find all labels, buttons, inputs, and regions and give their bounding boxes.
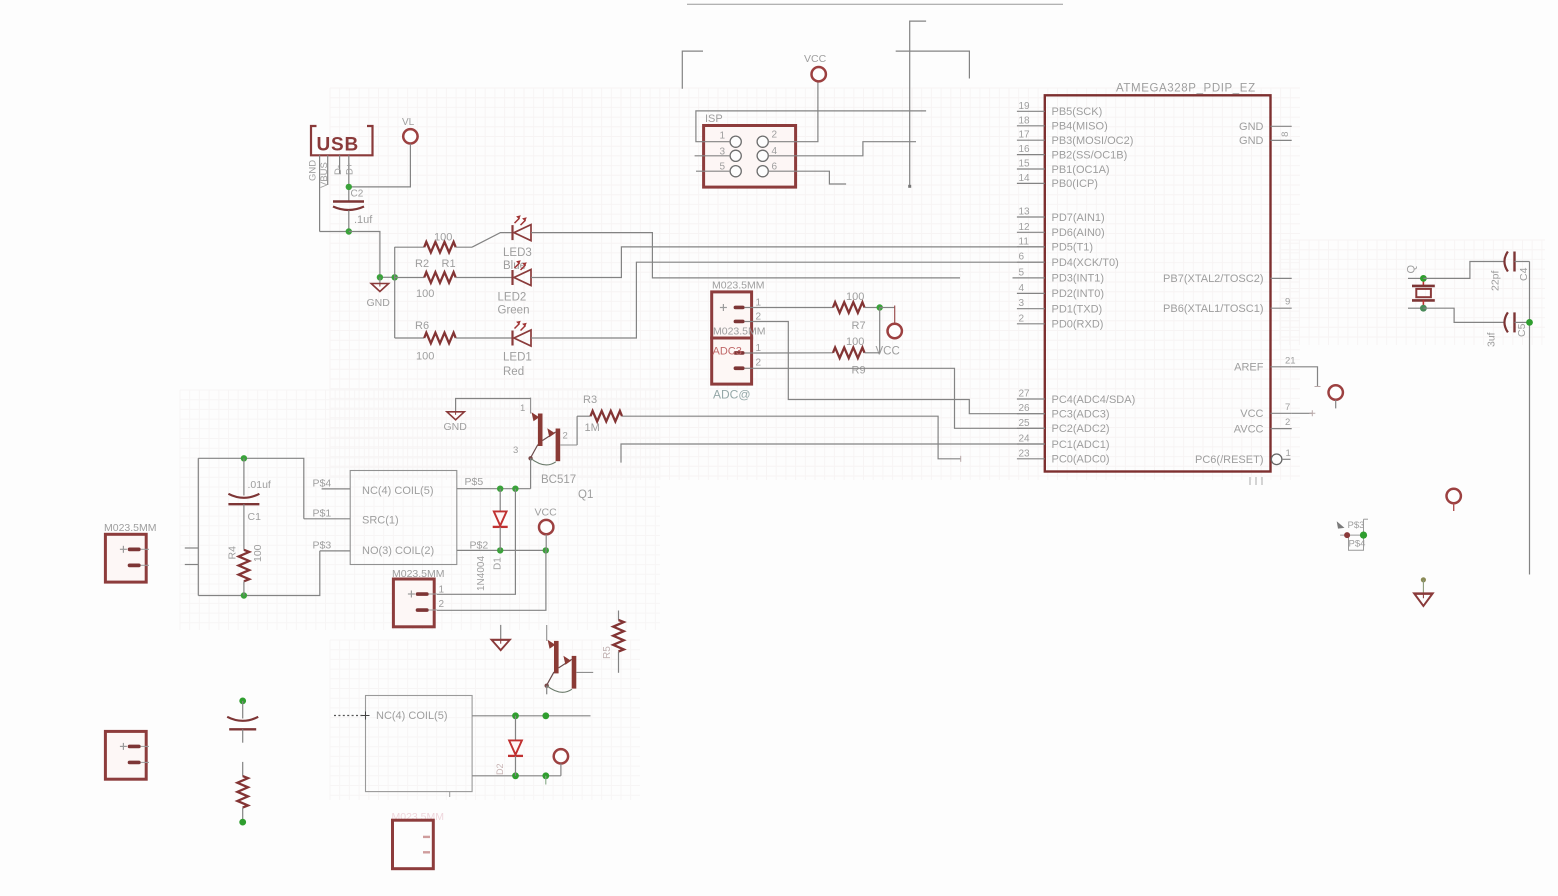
svg-text:Green: Green xyxy=(498,305,530,317)
wire blk pin2 to VCC node xyxy=(437,550,546,610)
junction C2 bottom xyxy=(346,228,352,234)
resistor R8 unlabeled xyxy=(237,762,248,822)
relay K2 box xyxy=(366,696,473,798)
svg-text:R5: R5 xyxy=(602,646,613,659)
svg-text:GND: GND xyxy=(1239,121,1264,133)
junction relay2 a xyxy=(512,712,519,719)
resistor R5 xyxy=(602,611,624,673)
svg-text:Red: Red xyxy=(503,366,524,378)
svg-text:PB7(XTAL2/TOSC2): PB7(XTAL2/TOSC2) xyxy=(1163,273,1263,285)
connector ISP xyxy=(704,113,796,187)
svg-text:NC(4) COIL(5): NC(4) COIL(5) xyxy=(376,710,448,722)
pin D+ of USB xyxy=(344,155,355,187)
svg-text:PB5(SCK): PB5(SCK) xyxy=(1052,106,1103,118)
wire dotted pin relay2 xyxy=(334,712,370,720)
svg-text:SRC(1): SRC(1) xyxy=(362,515,399,527)
pin 4 PD2(INT0) xyxy=(1017,283,1104,300)
junction P$5 a xyxy=(497,486,503,492)
svg-text:2: 2 xyxy=(1019,313,1025,324)
svg-text:2: 2 xyxy=(772,130,778,141)
svg-text:1: 1 xyxy=(720,131,726,142)
wire PC1 pin24 net xyxy=(621,444,1045,463)
svg-text:PB2(SS/OC1B): PB2(SS/OC1B) xyxy=(1052,149,1128,161)
wire USB GND to C2 bottom xyxy=(320,231,349,233)
wire R node vertical xyxy=(394,247,396,338)
svg-text:8: 8 xyxy=(1280,132,1291,137)
svg-text:C5: C5 xyxy=(1516,323,1528,337)
resistor R7 xyxy=(833,291,880,332)
svg-text:R6: R6 xyxy=(415,320,429,332)
relay K1 box xyxy=(350,471,457,565)
junction P$2 a xyxy=(497,547,503,553)
svg-text:Q1: Q1 xyxy=(578,489,593,501)
svg-text:1: 1 xyxy=(756,298,762,309)
wire left rail xyxy=(197,458,199,595)
resistor R3 xyxy=(577,394,622,434)
svg-text:PC1(ADC1): PC1(ADC1) xyxy=(1052,439,1110,451)
svg-text:BC517: BC517 xyxy=(541,474,576,486)
wire junction to VCC stub xyxy=(880,307,895,309)
pin 5 PD3(INT1) xyxy=(1013,267,1105,284)
resistor R2 xyxy=(395,258,513,300)
svg-text:R2: R2 xyxy=(415,258,429,270)
capacitor C3 unlabeled xyxy=(227,701,258,743)
ground GND below USB xyxy=(367,277,391,309)
svg-text:1: 1 xyxy=(1286,448,1291,459)
svg-text:1: 1 xyxy=(520,403,525,414)
resistor R1 xyxy=(395,232,472,271)
svg-text:100: 100 xyxy=(416,351,434,363)
svg-text:PB6(XTAL1/TOSC1): PB6(XTAL1/TOSC1) xyxy=(1163,303,1263,315)
svg-text:1: 1 xyxy=(756,343,762,354)
svg-text:PD3(INT1): PD3(INT1) xyxy=(1052,273,1105,285)
wire ISP pin2 to VCC xyxy=(768,82,818,142)
pin 1 PC6(/RESET) xyxy=(1195,448,1291,466)
svg-text:P$4: P$4 xyxy=(1349,539,1366,550)
diode D2 xyxy=(495,716,523,776)
pin AREF right side xyxy=(1234,355,1295,373)
wire top rail to P$1 xyxy=(198,458,303,519)
LED LED2 xyxy=(498,260,532,316)
svg-text:PD7(AIN1): PD7(AIN1) xyxy=(1052,212,1105,224)
svg-text:GND: GND xyxy=(367,297,391,309)
tick marks below IC xyxy=(1250,477,1262,485)
svg-text:P$2: P$2 xyxy=(470,539,489,551)
pin VBUS of USB xyxy=(319,155,330,188)
wire ISP pin4 net xyxy=(768,142,916,156)
svg-text:P$5: P$5 xyxy=(465,476,484,488)
connector M02 empty box bottom xyxy=(393,820,434,869)
wire blk pin1 to P$5 xyxy=(437,489,515,595)
ground GND near Q1 xyxy=(444,399,531,434)
connector M02 left (M023.5MM) xyxy=(104,522,157,582)
pin 25 PC2(ADC2) xyxy=(1017,418,1110,435)
svg-text:1M: 1M xyxy=(585,422,600,434)
svg-text:VCC: VCC xyxy=(1240,408,1263,420)
svg-text:16: 16 xyxy=(1019,144,1031,155)
wire GND node to R node xyxy=(380,276,395,278)
svg-text:C1: C1 xyxy=(248,511,262,523)
svg-text:PB3(MOSI/OC2): PB3(MOSI/OC2) xyxy=(1052,135,1134,147)
svg-text:23: 23 xyxy=(1019,448,1031,459)
svg-text:P$4: P$4 xyxy=(313,478,332,490)
wire R3 to PC0 area xyxy=(622,416,961,462)
pin P$2 xyxy=(457,539,546,551)
svg-text:M023.5MM: M023.5MM xyxy=(392,568,445,580)
svg-text:100: 100 xyxy=(252,544,264,562)
svg-text:VL: VL xyxy=(402,117,415,128)
pin 13 PD7(AIN1) xyxy=(1017,207,1105,224)
diode D1 1N4004 xyxy=(476,489,508,591)
svg-text:R9: R9 xyxy=(852,365,866,377)
wire ISP pin1 net xyxy=(696,111,926,142)
pin 19 PB5(SCK) xyxy=(1017,101,1102,118)
wire tick below junction d xyxy=(545,776,547,785)
wire ISP pin6 net xyxy=(768,171,846,184)
svg-text:PD5(T1): PD5(T1) xyxy=(1052,242,1094,254)
svg-text:4: 4 xyxy=(1019,283,1025,294)
svg-text:7: 7 xyxy=(1285,402,1290,413)
junction GND node xyxy=(377,274,383,280)
pin 26 PC3(ADC3) xyxy=(1017,403,1110,420)
connector M02 left lower (no label) xyxy=(105,731,149,779)
junction R4 bottom xyxy=(241,592,247,598)
svg-text:PD1(TXD): PD1(TXD) xyxy=(1052,304,1103,316)
wire ISP pin5 stub xyxy=(696,170,730,172)
pin 18 PB4(MISO) xyxy=(1017,115,1108,132)
svg-text:19: 19 xyxy=(1019,101,1031,112)
ground GND near Q2 xyxy=(492,625,510,650)
svg-text:21: 21 xyxy=(1285,355,1296,366)
svg-text:25: 25 xyxy=(1019,418,1031,429)
wire LED2 to PD5 xyxy=(531,247,1045,278)
svg-text:PC3(ADC3): PC3(ADC3) xyxy=(1052,409,1110,421)
svg-text:3uf: 3uf xyxy=(1486,332,1498,347)
svg-text:13: 13 xyxy=(1019,207,1031,218)
svg-text:LED3: LED3 xyxy=(503,247,532,259)
capacitor C1 .01uf xyxy=(228,458,271,550)
pin 16 PB2(SS/OC1B) xyxy=(1017,144,1127,161)
pin 2 PD0(RXD) xyxy=(1017,313,1104,330)
junction C5 rail xyxy=(1526,319,1533,326)
svg-text:17: 17 xyxy=(1019,130,1031,141)
svg-text:1N4004: 1N4004 xyxy=(476,556,487,591)
junction P$2 b xyxy=(543,547,549,553)
wire LED3 to PD3 xyxy=(531,233,960,278)
pin PB7(XTAL2/TOSC2) right side xyxy=(1163,273,1292,285)
svg-text:PC0(ADC0): PC0(ADC0) xyxy=(1052,454,1110,466)
wire LED1 to PD4 xyxy=(531,262,1045,338)
wire stub left a xyxy=(185,547,199,549)
svg-text:VCC: VCC xyxy=(535,507,558,519)
junction XTAL2 xyxy=(1420,275,1427,282)
junction D+/C2 xyxy=(346,184,352,190)
junction R8 bottom xyxy=(239,819,246,826)
wire stub left b xyxy=(185,564,199,566)
svg-text:GND: GND xyxy=(308,160,319,181)
svg-text:ATMEGA328P_PDIP_EZ: ATMEGA328P_PDIP_EZ xyxy=(1116,83,1256,95)
wire relay2 coil bottom net xyxy=(472,775,561,777)
svg-text:C2: C2 xyxy=(351,189,364,200)
svg-text:2: 2 xyxy=(1285,417,1290,428)
svg-text:12: 12 xyxy=(1019,222,1031,233)
svg-text:R3: R3 xyxy=(583,394,597,406)
connector M02 upper (M023.5MM) xyxy=(712,280,765,339)
svg-text:NC(4) COIL(5): NC(4) COIL(5) xyxy=(362,485,434,497)
svg-text:ISP: ISP xyxy=(705,113,723,125)
pin P$1 xyxy=(304,508,350,520)
svg-text:9: 9 xyxy=(1285,297,1290,308)
supply VCC at ISP xyxy=(804,53,827,81)
svg-text:GND: GND xyxy=(1239,135,1264,147)
crystal Q1X xyxy=(1406,265,1435,309)
svg-text:ADC3: ADC3 xyxy=(713,346,742,358)
svg-text:100: 100 xyxy=(846,291,864,303)
svg-text:2: 2 xyxy=(563,431,568,442)
svg-text:100: 100 xyxy=(434,232,452,244)
svg-text:D2: D2 xyxy=(495,763,505,775)
pad lower right xyxy=(1447,489,1461,511)
junction relay2 b xyxy=(542,712,549,719)
pin 23 PC0(ADC0) xyxy=(1017,448,1110,465)
capacitor C4 22pf xyxy=(1423,252,1530,292)
wire corner net left of ISP xyxy=(682,51,703,89)
pin 12 PD6(AIN0) xyxy=(1017,222,1105,239)
transistor Q1 BC517 xyxy=(528,398,593,501)
wire top border net xyxy=(687,3,1063,5)
ground GND lower right xyxy=(1414,577,1432,606)
svg-text:PB0(ICP): PB0(ICP) xyxy=(1052,178,1098,190)
svg-text:PD4(XCK/T0): PD4(XCK/T0) xyxy=(1052,257,1119,269)
LED LED3 xyxy=(503,215,532,272)
connector M02 below relay (M023.5MM) xyxy=(392,568,445,627)
pin PB6(XTAL1/TOSC1) right side xyxy=(1163,297,1292,315)
svg-text:100: 100 xyxy=(416,288,434,300)
connector USB xyxy=(311,126,373,156)
pin P$5 xyxy=(457,476,531,489)
node P$3 P$4 marker xyxy=(1337,519,1368,550)
resistor R6 xyxy=(395,320,513,363)
IC U1 ATMEGA328P_PDIP_EZ xyxy=(1045,83,1271,472)
junction P$5 b xyxy=(512,486,518,492)
pin GND right side xyxy=(1239,132,1292,148)
svg-text:PC4(ADC4/SDA): PC4(ADC4/SDA) xyxy=(1052,394,1136,406)
svg-text:18: 18 xyxy=(1019,115,1031,126)
pin 24 PC1(ADC1) xyxy=(1017,434,1110,451)
svg-text:D+: D+ xyxy=(344,162,355,175)
pin AVCC right side xyxy=(1234,417,1292,435)
svg-text:NO(3) COIL(2): NO(3) COIL(2) xyxy=(362,545,434,557)
wire AREF net xyxy=(1292,367,1321,387)
svg-text:P$1: P$1 xyxy=(313,508,332,520)
capacitor C2 xyxy=(333,187,373,232)
wire ISP pin3 stub xyxy=(695,155,731,157)
pin D- of USB xyxy=(333,155,344,175)
junction R7/VCC xyxy=(877,304,883,310)
svg-text:LED2: LED2 xyxy=(498,292,527,304)
svg-text:2: 2 xyxy=(756,312,762,323)
svg-text:AVCC: AVCC xyxy=(1234,423,1264,435)
resistor R4 xyxy=(227,544,265,595)
capacitor C5 xyxy=(1423,308,1529,347)
wire bottom rail to P$3 xyxy=(198,551,319,596)
wire relay2 coil top net xyxy=(472,715,590,717)
svg-text:PC2(ADC2): PC2(ADC2) xyxy=(1052,423,1110,435)
svg-text:P$3: P$3 xyxy=(1348,520,1365,531)
svg-text:22pf: 22pf xyxy=(1490,270,1502,291)
wire VCC pin stub extension xyxy=(1292,410,1316,416)
svg-text:D1: D1 xyxy=(493,557,504,570)
svg-text:LED1: LED1 xyxy=(503,352,532,364)
svg-text:M023.5MM: M023.5MM xyxy=(713,326,766,338)
wire VL to D+ node xyxy=(349,144,411,187)
svg-text:PB1(OC1A): PB1(OC1A) xyxy=(1052,164,1110,176)
svg-text:P$3: P$3 xyxy=(313,540,332,552)
svg-text:PB4(MISO): PB4(MISO) xyxy=(1052,121,1108,133)
supply VCC at relay1 xyxy=(535,507,558,551)
svg-text:14: 14 xyxy=(1019,173,1031,184)
pin 6 PD4(XCK/T0) xyxy=(1017,252,1119,269)
pad VL xyxy=(402,117,418,144)
svg-text:PC6(/RESET): PC6(/RESET) xyxy=(1195,454,1263,466)
transistor Q2 xyxy=(544,625,593,694)
svg-text:.1uf: .1uf xyxy=(354,214,373,226)
svg-text:M023.5MM: M023.5MM xyxy=(104,522,157,534)
junction XTAL1 xyxy=(1420,305,1427,312)
wire Q1 base to R3 xyxy=(576,416,578,445)
pin P$4 xyxy=(313,478,351,490)
svg-text:100: 100 xyxy=(846,336,864,348)
wire C2 bottom to GND node xyxy=(349,232,380,278)
pin 15 PB1(OC1A) xyxy=(1017,159,1110,176)
pin 11 PD5(T1) xyxy=(1017,236,1093,253)
connector ADC3 lower (M023.5MM) xyxy=(712,326,766,402)
pin 14 PB0(ICP) xyxy=(1017,173,1098,190)
svg-text:PD6(AIN0): PD6(AIN0) xyxy=(1052,227,1105,239)
svg-text:Blue: Blue xyxy=(503,260,526,272)
wire right rail xyxy=(1529,262,1531,575)
svg-text:PD0(RXD): PD0(RXD) xyxy=(1052,319,1104,331)
junction relay2 c xyxy=(512,772,519,779)
resistor R9 xyxy=(754,336,880,377)
svg-text:USB: USB xyxy=(317,135,360,156)
pin 17 PB3(MOSI/OC2) xyxy=(1017,130,1134,147)
pin 3 PD1(TXD) xyxy=(1017,298,1102,315)
supply VCC near R7 xyxy=(876,306,902,358)
wire vertical net near ISP xyxy=(908,21,926,188)
svg-text:D-: D- xyxy=(333,165,344,175)
svg-text:.01uf: .01uf xyxy=(248,479,271,491)
pin P$3 xyxy=(313,540,351,552)
svg-text:PD2(INT0): PD2(INT0) xyxy=(1052,288,1105,300)
wire upper pin2 to PC3 pin26 xyxy=(754,322,1045,414)
pad VCC near AREF xyxy=(1329,385,1343,408)
svg-text:R4: R4 xyxy=(227,546,239,560)
svg-text:26: 26 xyxy=(1019,403,1031,414)
svg-text:VBUS: VBUS xyxy=(319,162,330,188)
svg-text:27: 27 xyxy=(1019,389,1031,400)
svg-text:24: 24 xyxy=(1019,434,1031,445)
svg-text:R1: R1 xyxy=(442,258,456,270)
svg-text:5: 5 xyxy=(1019,267,1025,278)
svg-text:VCC: VCC xyxy=(804,53,827,65)
supply VCC at relay2 xyxy=(554,749,568,776)
wire upper pin1 to R7 xyxy=(754,307,833,309)
svg-text:15: 15 xyxy=(1019,159,1031,170)
wire upper L net xyxy=(896,51,970,78)
svg-text:M023.5MM: M023.5MM xyxy=(712,280,765,292)
svg-text:6: 6 xyxy=(1019,252,1025,263)
pin VCC right side xyxy=(1240,402,1291,420)
wire R1 diagonal to LED3 xyxy=(472,233,513,248)
svg-text:GND: GND xyxy=(444,421,468,433)
svg-text:3: 3 xyxy=(513,445,518,456)
svg-text:3: 3 xyxy=(1019,298,1025,309)
wire junction down to R9 xyxy=(879,308,881,353)
junction R node xyxy=(392,274,398,280)
svg-text:11: 11 xyxy=(1019,236,1030,247)
wire Q1 emitter down to relay net xyxy=(530,458,532,488)
svg-text:R7: R7 xyxy=(852,320,866,332)
pin GND of USB xyxy=(308,155,320,231)
junction C1 top xyxy=(241,455,247,461)
junction cap2 top xyxy=(239,698,246,705)
junction relay2 d xyxy=(542,772,549,779)
pin GND right side xyxy=(1239,121,1292,133)
pin 27 PC4(ADC4/SDA) xyxy=(1017,389,1135,406)
svg-text:Q: Q xyxy=(1406,265,1418,274)
svg-text:C4: C4 xyxy=(1518,267,1530,281)
LED LED1 xyxy=(503,321,532,378)
svg-text:AREF: AREF xyxy=(1234,362,1264,374)
svg-text:ADC@: ADC@ xyxy=(713,388,751,402)
wire ADC3 pin2 to PC2 pin25 xyxy=(754,368,1045,428)
svg-text:2: 2 xyxy=(756,358,762,369)
svg-text:2: 2 xyxy=(439,599,445,610)
